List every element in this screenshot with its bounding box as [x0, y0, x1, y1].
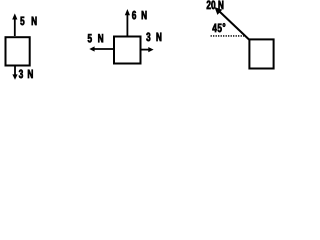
force arrow 5 N left (box 2) [89, 46, 113, 51]
box 3 (right free-body diagram) [249, 39, 273, 68]
force arrow 6 N up (box 2) [125, 9, 130, 36]
label 3 N (box 2 right) [146, 33, 150, 42]
label 5 N (box 2 left) [88, 34, 92, 42]
force arrow 3 N right (box 2) [142, 47, 154, 52]
angle label 45 degrees [212, 24, 216, 32]
label 3 N (box 1 down) [19, 70, 23, 79]
force arrow 5 N up (box 1) [12, 13, 17, 36]
label 5 N (box 1 up) [20, 17, 24, 25]
dotted horizontal reference line (box 3) [211, 35, 244, 37]
box 1 (left free-body diagram) [6, 37, 30, 65]
force arrow 20 N diagonal up-left at 45 degrees (box 3) [215, 7, 250, 40]
label 20 N (box 3 arrow) [207, 1, 211, 9]
force arrow 3 N down (box 1) [12, 66, 17, 80]
label 6 N (box 2 up) [132, 11, 136, 20]
box 2 (middle free-body diagram) [114, 37, 141, 64]
